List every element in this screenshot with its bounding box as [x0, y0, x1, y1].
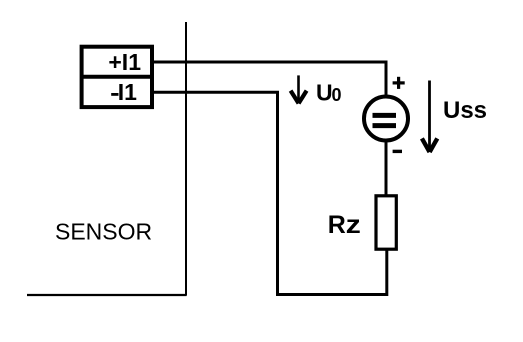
svg-text:z: z — [346, 211, 361, 239]
wire voltage source minus to Rz — [385, 141, 388, 197]
svg-text:SENSOR: SENSOR — [55, 219, 152, 245]
pin label -I1 — [111, 79, 137, 105]
minus polarity mark — [393, 150, 402, 153]
label Rz — [328, 211, 361, 239]
arrow Uss — [422, 81, 437, 153]
label U0 — [316, 80, 342, 106]
voltage source G1 (DC) — [364, 97, 408, 141]
pin label +I1 — [108, 49, 141, 75]
svg-text:+I1: +I1 — [108, 49, 141, 75]
terminal block X1 — [82, 47, 152, 107]
svg-text:U: U — [316, 80, 333, 106]
wire +I1 to voltage source plus terminal — [154, 62, 386, 97]
plus polarity mark — [393, 77, 405, 89]
sensor boundary vertical line — [185, 22, 187, 296]
label Uss — [443, 97, 487, 124]
resistor Rz — [376, 196, 396, 249]
arrow U0 — [291, 75, 307, 103]
svg-text:Uss: Uss — [443, 97, 487, 124]
label SENSOR — [55, 219, 152, 245]
sensor boundary bottom line — [27, 294, 187, 296]
svg-text:0: 0 — [332, 85, 342, 105]
wire -I1 return via bottom to Rz — [154, 92, 387, 294]
svg-text:I1: I1 — [118, 79, 137, 105]
svg-text:R: R — [328, 211, 346, 239]
